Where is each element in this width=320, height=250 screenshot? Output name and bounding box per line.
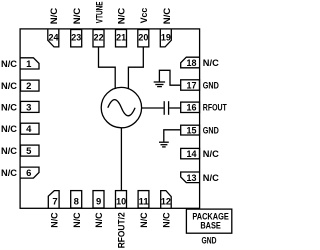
svg-text:N/C: N/C [94,212,105,227]
svg-text:N/C: N/C [1,102,17,113]
svg-text:2: 2 [26,81,31,92]
svg-text:GND: GND [203,80,219,91]
svg-text:N/C: N/C [49,8,60,25]
svg-text:N/C: N/C [1,59,17,70]
svg-text:N/C: N/C [203,149,219,160]
svg-text:6: 6 [26,168,31,179]
svg-text:RFOUT: RFOUT [203,103,227,114]
svg-text:N/C: N/C [1,81,17,92]
svg-text:N/C: N/C [161,212,172,227]
svg-text:20: 20 [138,33,148,44]
svg-text:N/C: N/C [1,146,17,157]
svg-text:5: 5 [26,146,32,157]
svg-text:N/C: N/C [139,212,150,227]
svg-text:24: 24 [49,33,60,44]
svg-text:3: 3 [26,102,31,113]
svg-text:4: 4 [26,124,32,135]
svg-text:N/C: N/C [203,58,219,69]
svg-text:BASE: BASE [200,220,221,231]
svg-text:GND: GND [203,125,219,136]
svg-text:9: 9 [96,197,101,208]
svg-text:N/C: N/C [162,8,173,25]
svg-text:17: 17 [187,80,197,91]
svg-text:12: 12 [161,197,171,208]
svg-text:1: 1 [26,59,32,70]
svg-text:15: 15 [187,125,198,136]
svg-text:N/C: N/C [72,212,83,227]
svg-text:GND: GND [202,235,217,246]
svg-text:10: 10 [116,197,126,208]
svg-text:22: 22 [94,33,104,44]
svg-text:N/C: N/C [72,8,83,25]
svg-text:16: 16 [187,103,197,114]
svg-text:VTUNE: VTUNE [95,1,106,23]
svg-text:RFOUT/2: RFOUT/2 [117,212,128,248]
svg-text:14: 14 [187,149,198,160]
svg-text:11: 11 [139,197,150,208]
svg-text:N/C: N/C [1,168,17,179]
svg-text:19: 19 [161,33,171,44]
svg-text:N/C: N/C [50,212,61,227]
svg-text:23: 23 [71,33,81,44]
svg-text:N/C: N/C [1,124,17,135]
svg-text:N/C: N/C [117,8,128,25]
svg-text:Vcc: Vcc [139,8,150,24]
svg-text:N/C: N/C [203,173,219,184]
svg-text:7: 7 [52,197,57,208]
svg-text:13: 13 [187,173,197,184]
svg-text:21: 21 [116,33,127,44]
svg-text:18: 18 [187,58,197,69]
svg-text:8: 8 [74,197,79,208]
